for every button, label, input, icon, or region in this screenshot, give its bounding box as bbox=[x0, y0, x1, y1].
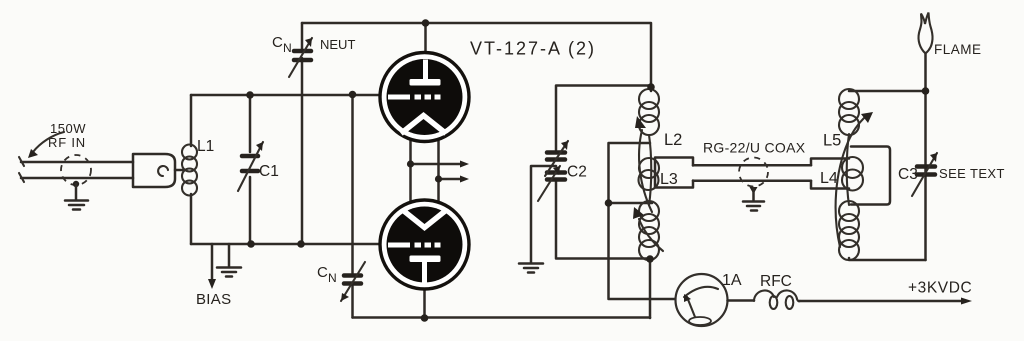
svg-text:L2: L2 bbox=[664, 131, 682, 149]
svg-text:L4: L4 bbox=[820, 170, 838, 187]
filament arrow lower bbox=[435, 175, 469, 182]
node CN2 top / grid1 bbox=[349, 91, 357, 99]
link L4 bbox=[811, 147, 890, 205]
wire plug to L1 tap bbox=[175, 169, 186, 172]
wire plate bottom bus bbox=[353, 316, 651, 319]
capacitor C1 bbox=[238, 95, 279, 244]
svg-text:BIAS: BIAS bbox=[196, 291, 231, 308]
BIAS lead arrow bbox=[196, 244, 231, 308]
svg-text:L1: L1 bbox=[197, 138, 214, 155]
flame bbox=[919, 13, 982, 58]
node L2 top bbox=[647, 83, 655, 91]
link L3 bbox=[639, 158, 694, 191]
inductor L2 bbox=[633, 87, 682, 260]
wire meter to RFC bbox=[728, 299, 755, 302]
wire tube2 plate lead bbox=[423, 288, 426, 318]
coax input shield bbox=[61, 155, 91, 185]
node C1 top / grid1 bbox=[246, 91, 254, 99]
capacitor C2 (split stator) bbox=[538, 86, 651, 259]
node CN1 bottom / grid2 bbox=[297, 240, 305, 248]
svg-text:1A: 1A bbox=[722, 272, 742, 289]
svg-text:VT-127-A (2): VT-127-A (2) bbox=[470, 39, 596, 59]
ground (coax input) bbox=[65, 181, 88, 210]
inductor L5 bbox=[823, 89, 926, 260]
inductor RFC bbox=[754, 273, 800, 309]
inductor L1 bbox=[182, 95, 214, 244]
svg-text:SEE TEXT: SEE TEXT bbox=[939, 166, 1005, 181]
capacitor CN neutralizing (bottom) bbox=[317, 95, 365, 318]
svg-text:C1: C1 bbox=[259, 163, 279, 180]
tube V1 VT-127-A (top) bbox=[380, 53, 469, 142]
wire grid2 (y=244) bbox=[191, 243, 379, 246]
svg-text:RG-22/U COAX: RG-22/U COAX bbox=[703, 140, 806, 156]
tube V2 VT-127-A (bottom) bbox=[380, 200, 469, 289]
ground (coax mid) bbox=[743, 187, 764, 211]
node tube1 plate bbox=[422, 19, 430, 27]
svg-text:RFC: RFC bbox=[760, 273, 792, 290]
svg-text:C3: C3 bbox=[898, 166, 918, 183]
node L2 bottom bbox=[646, 255, 654, 263]
wire B+ out bbox=[799, 280, 972, 305]
coax input lines bbox=[19, 157, 133, 182]
svg-text:N: N bbox=[328, 271, 337, 285]
label 150W RF IN bbox=[28, 121, 86, 158]
capacitor C3 bbox=[898, 53, 1005, 260]
wire tube1 plate lead bbox=[424, 23, 427, 55]
capacitor CN neutralizing (top) bbox=[272, 23, 355, 244]
node tube2 plate bbox=[421, 314, 429, 322]
wire plate top (tube1 plate to L2 top) bbox=[302, 23, 651, 87]
wire grid1 (y=95) bbox=[191, 94, 379, 97]
node C1 bottom / grid2 bbox=[247, 240, 255, 248]
ground (C2) bbox=[519, 166, 556, 273]
svg-text:C: C bbox=[272, 34, 283, 51]
svg-text:FLAME: FLAME bbox=[934, 42, 982, 57]
svg-text:C: C bbox=[317, 264, 328, 281]
wire L2 bottom riser bbox=[649, 259, 652, 318]
wire B+ feed taps to L2 center bbox=[605, 143, 676, 299]
RG-22/U coax line bbox=[693, 140, 811, 187]
meter 1A bbox=[676, 272, 742, 326]
svg-text:L3: L3 bbox=[660, 171, 678, 188]
connector plug bbox=[133, 154, 175, 187]
wire filament leg left bbox=[409, 140, 412, 202]
svg-text:+3KVDC: +3KVDC bbox=[908, 280, 972, 297]
svg-text:RF IN: RF IN bbox=[48, 135, 86, 150]
svg-text:L5: L5 bbox=[823, 132, 841, 150]
svg-text:NEUT: NEUT bbox=[320, 37, 355, 52]
ground (grid circuit) bbox=[217, 244, 241, 277]
filament arrow upper bbox=[407, 160, 469, 167]
svg-text:N: N bbox=[283, 41, 292, 55]
svg-text:C2: C2 bbox=[567, 164, 587, 181]
node L5 top / C3 bbox=[922, 87, 930, 95]
svg-text:150W: 150W bbox=[50, 121, 86, 136]
wire filament leg right bbox=[437, 140, 440, 202]
